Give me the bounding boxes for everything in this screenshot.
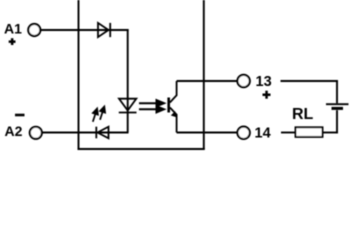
resistor RL box [296, 127, 323, 137]
phototransistor [167, 81, 177, 133]
terminal A1 circle [28, 24, 40, 36]
svg-text:A1: A1 [4, 21, 22, 37]
wire battery to RL [336, 110, 338, 133]
terminal A2 circle [30, 127, 42, 139]
LED indicator emission arrows [93, 107, 105, 122]
optocoupler LED [119, 99, 137, 113]
battery cell short plate [332, 107, 344, 110]
wire A2 rail [42, 132, 129, 134]
svg-text:RL: RL [292, 106, 314, 123]
wire vertical from diode down to A2 rail [127, 29, 129, 132]
module outline box [78, 0, 205, 149]
wire terminal 14 to RL [281, 132, 296, 134]
LED indicator (status LED on A2 rail) [96, 127, 108, 139]
svg-text:13: 13 [256, 74, 272, 90]
wire emitter to terminal 14 [177, 132, 238, 134]
optocoupler light arrows [139, 100, 164, 112]
terminal A1 plus sign [9, 38, 16, 45]
wire terminal 13 to battery [281, 80, 338, 82]
terminal 13 circle [237, 75, 249, 87]
diode (series protection) [98, 23, 110, 37]
wire collector to terminal 13 [177, 80, 238, 82]
terminal 14 circle [237, 127, 249, 139]
terminal A2 minus sign [15, 114, 25, 117]
battery cell long plate [326, 103, 349, 105]
wire A1 to corner [41, 29, 129, 31]
svg-text:A2: A2 [5, 123, 23, 139]
terminal 13 plus sign [263, 91, 271, 99]
svg-text:14: 14 [255, 126, 271, 142]
